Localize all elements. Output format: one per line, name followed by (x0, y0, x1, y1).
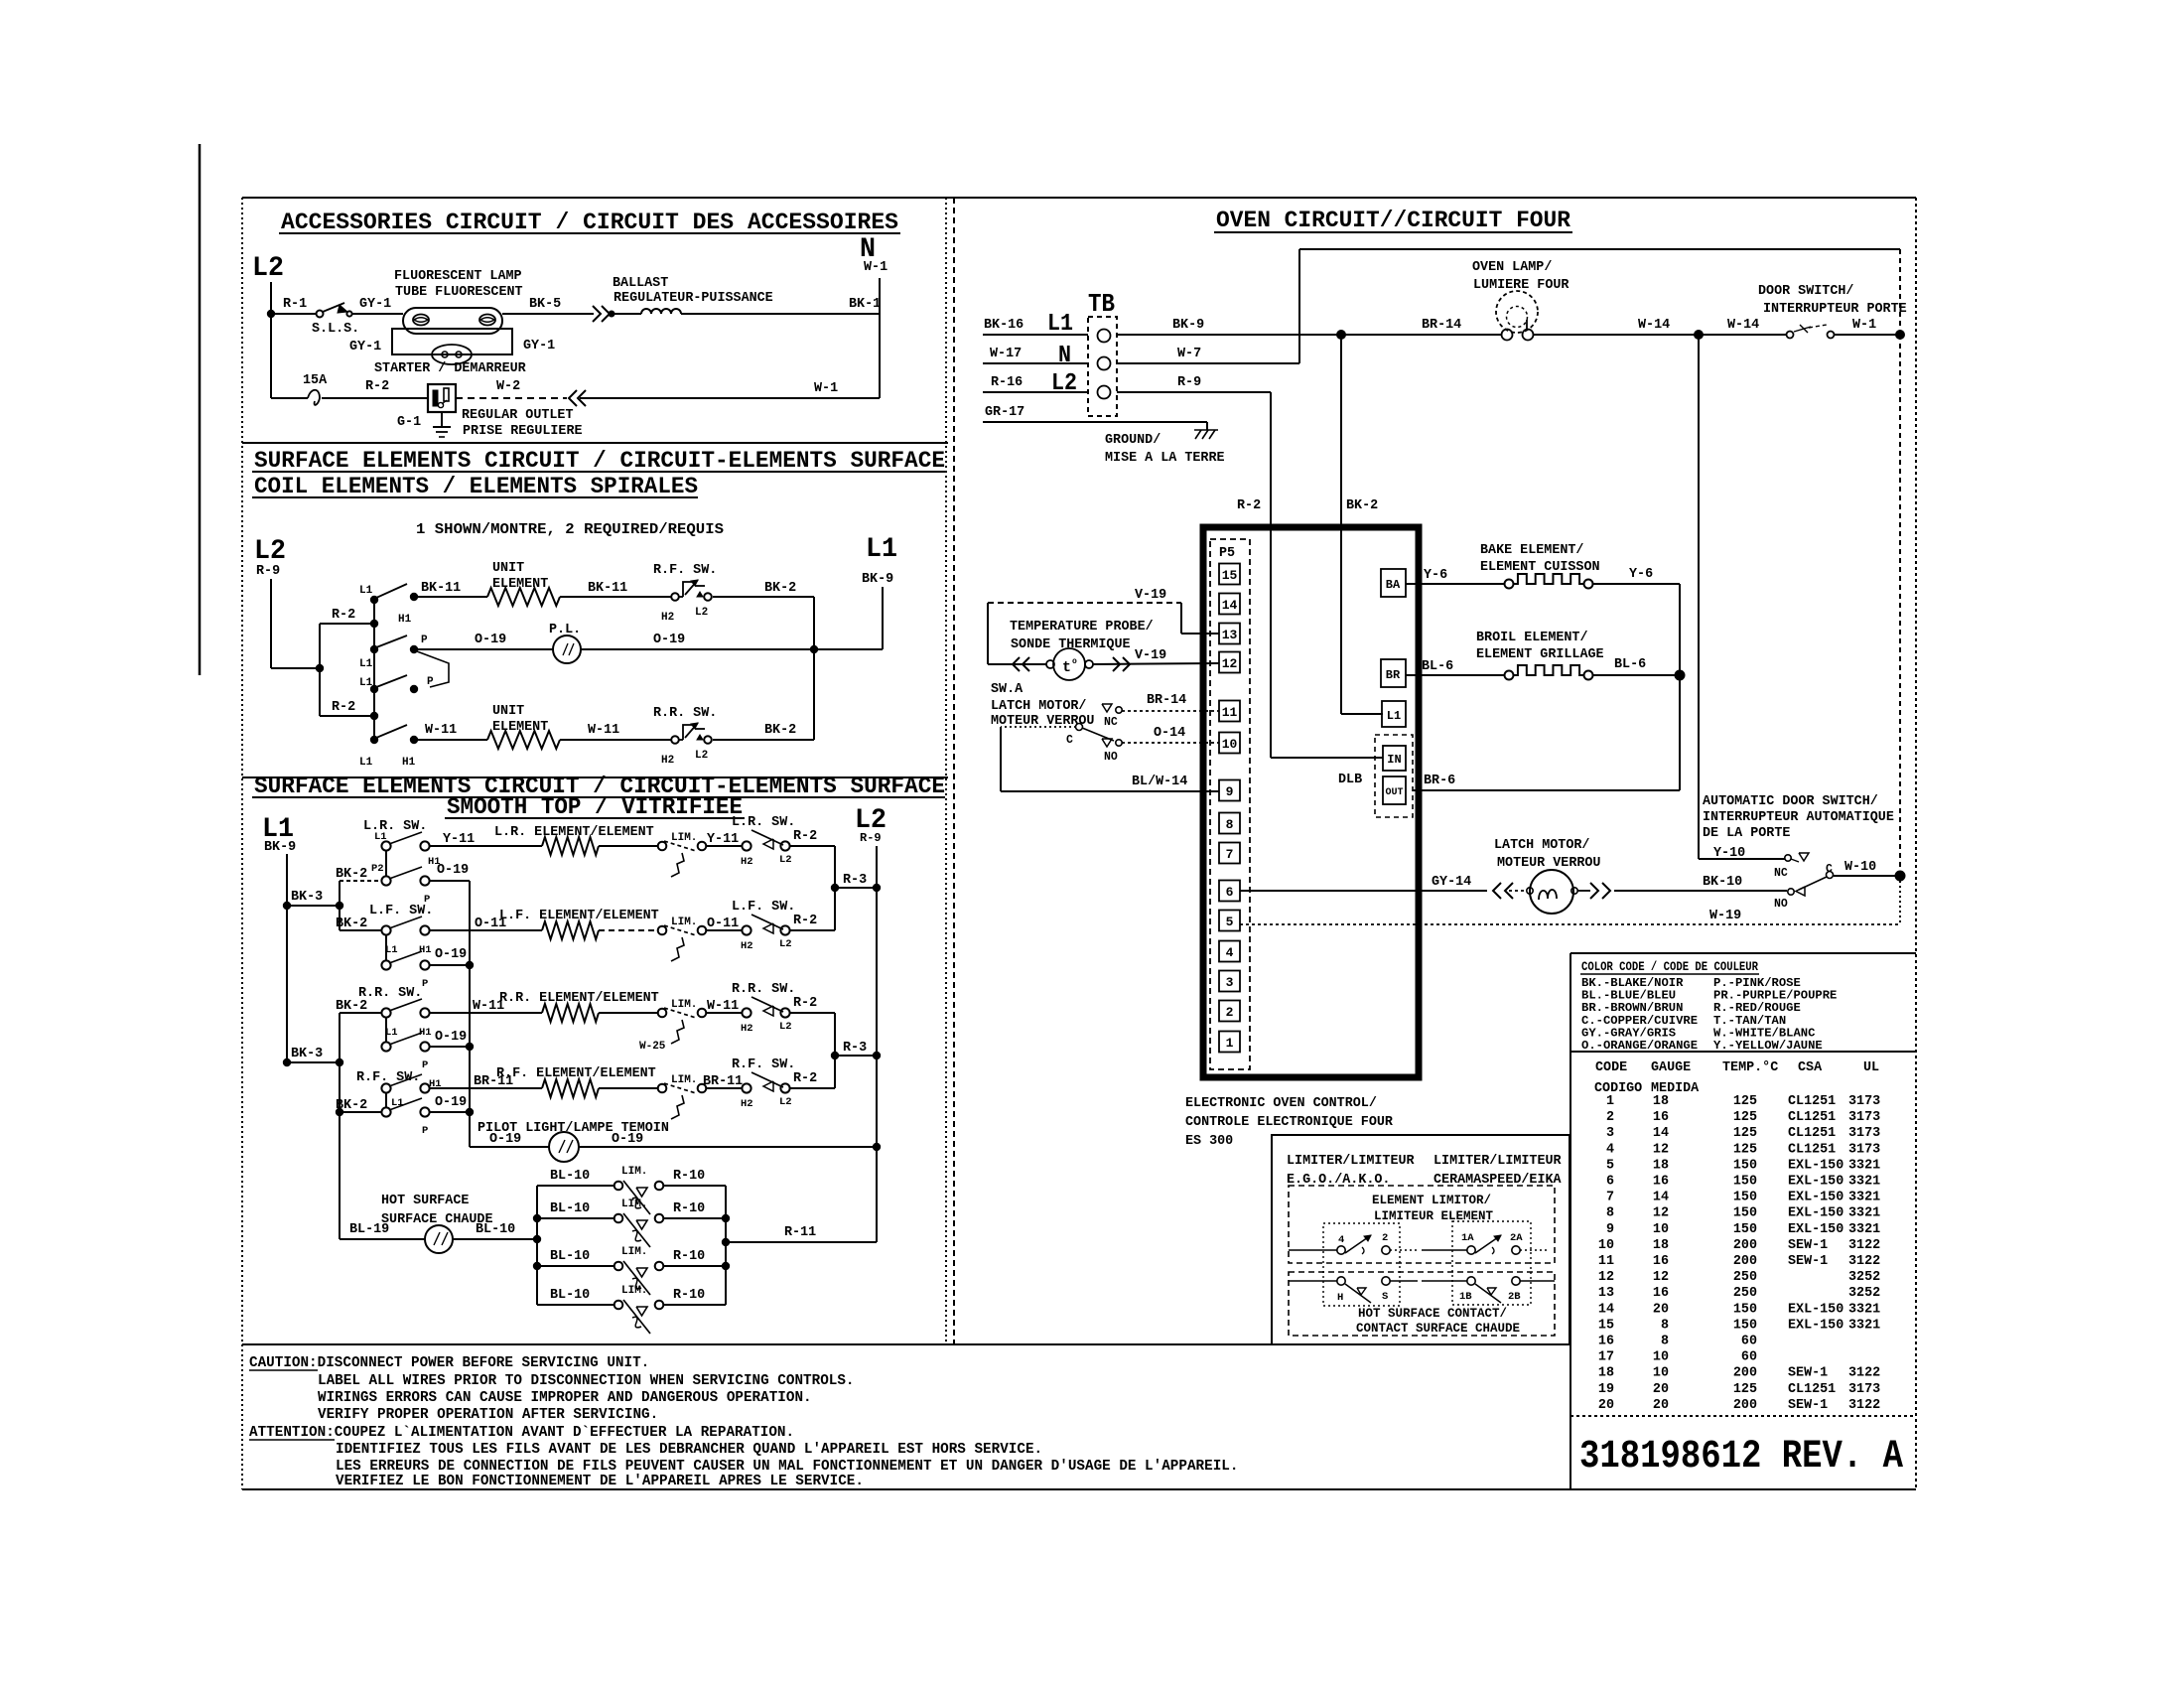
svg-text:R.R. SW.: R.R. SW. (358, 986, 422, 1001)
wire switch bus (coil) (373, 600, 375, 740)
svg-text:P: P (421, 635, 428, 646)
svg-text:W-2: W-2 (496, 379, 520, 394)
resistor L.F. element (542, 921, 599, 939)
node R-2 lower (370, 712, 378, 720)
svg-text:Y-11: Y-11 (707, 832, 739, 847)
svg-text:BL-10: BL-10 (550, 1169, 590, 1184)
wire bus segment A (smooth) (339, 881, 341, 930)
svg-text:200: 200 (1733, 1398, 1757, 1413)
svg-text:BK-5: BK-5 (529, 297, 561, 312)
svg-text:R-2: R-2 (365, 379, 389, 394)
wire bake/broil junction vertical (1679, 584, 1681, 790)
svg-text:H2: H2 (741, 1023, 753, 1035)
left boxes outer border left (dotted) (241, 198, 243, 1489)
connector chevrons W-2 (569, 390, 577, 406)
wire W-11 right (560, 739, 671, 741)
top border (242, 197, 1916, 199)
wire to limiter row2 (dashed) (599, 929, 658, 931)
svg-text:OVEN CIRCUIT//CIRCUIT FOUR: OVEN CIRCUIT//CIRCUIT FOUR (1216, 208, 1570, 233)
svg-text:12: 12 (1222, 656, 1238, 671)
svg-text:EXL-150: EXL-150 (1788, 1191, 1843, 1205)
node BK-3/bus junction lower (336, 1058, 343, 1066)
svg-text:BL-10: BL-10 (550, 1249, 590, 1264)
svg-text:LIMITEUR ELEMENT: LIMITEUR ELEMENT (1374, 1209, 1494, 1223)
svg-text:L2: L2 (779, 1096, 792, 1108)
svg-text:LIM.: LIM. (671, 999, 697, 1011)
svg-text:O-19: O-19 (475, 633, 506, 647)
wire BK-2 R.R. (340, 1012, 381, 1014)
switch SW.A NO contact (1102, 739, 1112, 747)
svg-text:14: 14 (1222, 598, 1238, 613)
probe connector chevrons left (1013, 657, 1020, 671)
svg-text:R-16: R-16 (991, 375, 1023, 390)
temperature probe sensor (1046, 660, 1054, 668)
svg-text:4: 4 (1226, 945, 1234, 960)
svg-text:H1: H1 (419, 1027, 432, 1039)
node O-19/BK-2 junction (810, 645, 818, 653)
svg-text:G-1: G-1 (397, 415, 421, 430)
svg-text:L1: L1 (1387, 709, 1401, 723)
limiter inner dotted box right (1452, 1221, 1531, 1305)
node BL-6 junction (1675, 670, 1686, 681)
svg-text:L2: L2 (779, 938, 792, 950)
svg-text:O-19: O-19 (489, 1132, 521, 1147)
regular outlet (starter box) (428, 384, 456, 412)
svg-text:REGULAR OUTLET: REGULAR OUTLET (462, 408, 574, 423)
wire BK-5 (502, 313, 594, 315)
svg-text:UNIT: UNIT (492, 561, 524, 576)
svg-text:L1: L1 (866, 534, 897, 565)
svg-text:R.R. SW.: R.R. SW. (653, 706, 717, 721)
table top border (1570, 952, 1916, 954)
switch S.L.S. (317, 311, 324, 318)
svg-text:R-11: R-11 (784, 1225, 816, 1240)
node BK-9 junction (1336, 330, 1346, 340)
svg-text:ATTENTION:COUPEZ L`ALIMENTATIO: ATTENTION:COUPEZ L`ALIMENTATION AVANT D`… (249, 1425, 794, 1441)
svg-text:W-1: W-1 (814, 381, 838, 396)
svg-text:BL-10: BL-10 (476, 1222, 515, 1237)
svg-text:TB: TB (1088, 289, 1115, 319)
svg-text:R-9: R-9 (860, 831, 882, 845)
svg-text:PRISE REGULIERE: PRISE REGULIERE (463, 424, 583, 439)
wire BK-11 left (414, 596, 487, 598)
inductor ballast (612, 313, 641, 315)
svg-text:3252: 3252 (1848, 1270, 1880, 1285)
svg-text:3321: 3321 (1848, 1206, 1880, 1221)
svg-text:125: 125 (1733, 1110, 1757, 1125)
wire W-10 drop (1899, 876, 1901, 924)
wire O-19 pilot left (470, 1146, 549, 1148)
electronic oven control box (1203, 527, 1419, 1077)
ground outlet (441, 412, 443, 427)
switch SW.A NC contact (1102, 704, 1112, 712)
svg-text:LATCH MOTOR/: LATCH MOTOR/ (991, 699, 1086, 714)
wire Y-6 left (1406, 583, 1505, 585)
svg-text:VERIFIEZ LE BON FONCTIONNEMENT: VERIFIEZ LE BON FONCTIONNEMENT DE L'APPA… (336, 1474, 864, 1489)
svg-text:GROUND/: GROUND/ (1105, 433, 1160, 448)
svg-text:UL: UL (1863, 1060, 1879, 1075)
svg-text:BK-11: BK-11 (588, 581, 627, 596)
wire Y-6 right (1592, 583, 1680, 585)
divider between left boxes and oven circuit box (dotted) (945, 198, 947, 1344)
svg-text:BAKE ELEMENT/: BAKE ELEMENT/ (1480, 543, 1583, 558)
wire ladder right rail (725, 1186, 727, 1305)
node ballast input (609, 311, 615, 318)
svg-text:ACCESSORIES CIRCUIT / CIRCUIT: ACCESSORIES CIRCUIT / CIRCUIT DES ACCESS… (281, 210, 898, 235)
svg-text:15: 15 (1222, 568, 1238, 583)
bottom border (242, 1488, 1916, 1490)
svg-text:3122: 3122 (1848, 1238, 1880, 1253)
svg-text:15: 15 (1598, 1318, 1614, 1333)
wire R-10 ladder row y=1227 (663, 1217, 726, 1219)
switch SW.A common (1076, 724, 1083, 731)
svg-text:BK-2: BK-2 (1346, 498, 1378, 513)
svg-text:IN: IN (1387, 753, 1401, 767)
svg-text:BR-14: BR-14 (1422, 318, 1461, 333)
wire R-3 lower (835, 1055, 877, 1057)
svg-text:W-7: W-7 (1177, 347, 1201, 361)
node pilot/L2 junction (873, 1143, 881, 1151)
wire BK-3 lower (287, 1061, 340, 1063)
wire BK-1 (681, 313, 880, 315)
svg-text:125: 125 (1733, 1094, 1757, 1109)
wire O-14 to pin10 (dashed) (1122, 742, 1219, 744)
svg-text:3173: 3173 (1848, 1110, 1880, 1125)
node ladder left row2 (533, 1214, 541, 1222)
terminal block TB (1088, 317, 1117, 416)
pin 15 (P5) (1219, 564, 1240, 585)
node O-19 trunk row4 (466, 1108, 474, 1116)
svg-text:P: P (427, 676, 434, 688)
svg-text:6: 6 (1606, 1175, 1614, 1190)
wire Y-11 right (706, 845, 743, 847)
pin 11 (P5) (1219, 701, 1240, 722)
limiter switch 1B-2B (1422, 1280, 1467, 1282)
svg-text:4: 4 (1338, 1234, 1344, 1246)
svg-text:3: 3 (1606, 1126, 1614, 1141)
svg-text:R-1: R-1 (283, 297, 307, 312)
svg-text:SMOOTH TOP / VITRIFIEE: SMOOTH TOP / VITRIFIEE (447, 794, 743, 820)
oven circuit box left border (dashed) (953, 198, 955, 1344)
wire R-9 (270, 579, 272, 668)
wire O-11 left (430, 929, 542, 931)
wire L2 vertical (270, 282, 272, 398)
svg-text:O-19: O-19 (435, 947, 467, 962)
wire BK-2 to L1 relay (1341, 713, 1383, 715)
wire R-2 row3 (789, 1012, 835, 1014)
svg-text:150: 150 (1733, 1158, 1757, 1173)
svg-text:125: 125 (1733, 1382, 1757, 1397)
svg-text:LIM.: LIM. (621, 1166, 647, 1178)
wire BR-14 to pin11 (dashed) (1122, 710, 1219, 712)
wire O-19 row4 (430, 1111, 470, 1113)
svg-text:LIM.: LIM. (671, 1074, 697, 1086)
connector chevrons (593, 306, 601, 322)
wire R-2/R-3 corner row3-4 (834, 1013, 836, 1088)
wire to limiter row4 (599, 1087, 658, 1089)
svg-text:W-1: W-1 (1852, 318, 1876, 333)
node BK-2 R.F. junction (336, 1108, 343, 1116)
svg-text:BK-1: BK-1 (849, 297, 881, 312)
svg-text:O-19: O-19 (437, 863, 469, 878)
svg-text:R-3: R-3 (843, 873, 867, 888)
svg-text:L2: L2 (254, 536, 286, 567)
svg-text:BK-3: BK-3 (291, 890, 323, 905)
pin 10 (P5) (1219, 733, 1240, 754)
svg-text:14: 14 (1653, 1191, 1669, 1205)
svg-text:4: 4 (1606, 1142, 1614, 1157)
resistor L.R. element (542, 837, 599, 855)
svg-text:H1: H1 (419, 944, 432, 956)
svg-text:DOOR SWITCH/: DOOR SWITCH/ (1758, 284, 1853, 299)
wire N vertical (879, 278, 881, 398)
wire BK-2 upper (coil) (713, 596, 814, 598)
svg-text:H1: H1 (402, 757, 416, 769)
svg-text:200: 200 (1733, 1254, 1757, 1269)
svg-text:5: 5 (1226, 915, 1234, 929)
svg-text:t: t (1062, 659, 1071, 676)
svg-text:R-9: R-9 (256, 564, 280, 579)
svg-text:R-10: R-10 (673, 1201, 705, 1216)
svg-text:ELECTRONIC OVEN CONTROL/: ELECTRONIC OVEN CONTROL/ (1185, 1096, 1377, 1111)
svg-text:L1: L1 (359, 658, 373, 670)
svg-text:8: 8 (1606, 1206, 1614, 1221)
door switch (1787, 332, 1794, 339)
pin 7 (P5) (1219, 843, 1240, 864)
relay OUT box (1383, 776, 1406, 804)
hot surface contact dashed box (1289, 1272, 1555, 1336)
svg-text:LIMITER/LIMITEUR: LIMITER/LIMITEUR (1433, 1154, 1563, 1169)
svg-text:LIM.: LIM. (621, 1285, 647, 1297)
svg-text:EXL-150: EXL-150 (1788, 1222, 1843, 1237)
wire BL/W-14 to pin9 (1001, 790, 1219, 792)
svg-text:1B: 1B (1459, 1291, 1472, 1303)
svg-text:L2: L2 (779, 854, 792, 866)
svg-text:20: 20 (1653, 1302, 1669, 1317)
svg-text:10: 10 (1653, 1222, 1669, 1237)
relay L1 box (1382, 701, 1406, 727)
svg-text:L.F. SW.: L.F. SW. (732, 900, 795, 915)
wire V-19 riser to pin13 (1180, 603, 1182, 634)
svg-text:H1: H1 (398, 614, 412, 626)
svg-text:L2: L2 (695, 607, 708, 619)
svg-text:BA: BA (1386, 578, 1401, 592)
svg-text:GY-14: GY-14 (1432, 875, 1471, 890)
wire O-19 pilot right (579, 1146, 877, 1148)
svg-text:NC: NC (1104, 716, 1118, 729)
svg-text:3321: 3321 (1848, 1175, 1880, 1190)
wire R-11 (726, 1241, 877, 1243)
wire R-10 ladder row y=1194 (663, 1185, 726, 1187)
svg-text:BK-2: BK-2 (336, 999, 367, 1014)
node BK-3 lower left (283, 1058, 291, 1066)
svg-text:19: 19 (1598, 1382, 1614, 1397)
svg-text:R-2: R-2 (1237, 498, 1261, 513)
svg-text:8: 8 (1661, 1318, 1669, 1333)
node W-14 junction (1694, 330, 1704, 340)
wire GY-14 from pin6 (1240, 890, 1487, 892)
switch unit-element lower L1/H1 (370, 736, 378, 744)
svg-text:IDENTIFIEZ TOUS LES FILS AVANT: IDENTIFIEZ TOUS LES FILS AVANT DE LES DE… (336, 1442, 1042, 1458)
svg-text:P: P (422, 1059, 428, 1071)
wire BR-11 right (706, 1087, 743, 1089)
svg-text:2A: 2A (1510, 1232, 1523, 1244)
wire to limiter row1 (599, 845, 658, 847)
limiter box (1272, 1135, 1570, 1344)
svg-text:9: 9 (1226, 784, 1234, 799)
wire O-11 right (706, 929, 743, 931)
svg-text:15A: 15A (303, 373, 328, 388)
table header separator (1570, 1051, 1916, 1053)
node BL-10 trunk (533, 1235, 541, 1243)
svg-text:12: 12 (1653, 1270, 1669, 1285)
node O-19 trunk row2 (466, 961, 474, 969)
svg-text:BK-2: BK-2 (336, 867, 367, 882)
svg-text:8: 8 (1661, 1335, 1669, 1349)
wire BL-6 right (1592, 674, 1680, 676)
wire W-14 to door switch (1699, 334, 1787, 336)
node BK-3/bus junction upper (336, 902, 343, 910)
svg-text:BR-11: BR-11 (703, 1074, 743, 1089)
wire V-19 to pin12 (1093, 663, 1219, 664)
svg-text:20: 20 (1653, 1398, 1669, 1413)
pin 12 (P5) (1219, 652, 1240, 673)
svg-text:O-14: O-14 (1154, 726, 1185, 741)
svg-text:W-17: W-17 (990, 347, 1022, 361)
pin 6 (P5) (1219, 881, 1240, 902)
wire BL-6 left (1406, 674, 1505, 676)
node R-3/R-9 junction lower (873, 1052, 881, 1059)
wire BK-3 upper (287, 905, 340, 907)
svg-text:L1: L1 (359, 585, 373, 597)
svg-text:3122: 3122 (1848, 1398, 1880, 1413)
wire BR-6 (1413, 789, 1680, 791)
svg-text:BL-6: BL-6 (1422, 659, 1453, 674)
svg-text:LIM.: LIM. (671, 917, 697, 928)
svg-text:BK-3: BK-3 (291, 1047, 323, 1061)
svg-text:BK-2: BK-2 (764, 581, 796, 596)
svg-text:11: 11 (1222, 705, 1238, 720)
svg-text:LATCH MOTOR/: LATCH MOTOR/ (1494, 838, 1589, 853)
wire W-1 bottom (580, 397, 880, 399)
svg-text:O-19: O-19 (653, 633, 685, 647)
svg-text:L1: L1 (374, 831, 387, 843)
svg-text:CL1251: CL1251 (1788, 1126, 1836, 1141)
svg-text:W-11: W-11 (425, 723, 457, 738)
wire probe left leg (987, 603, 989, 664)
svg-text:R-2: R-2 (332, 608, 355, 623)
wire BL-10 feed (453, 1238, 537, 1240)
svg-text:SURFACE ELEMENTS CIRCUIT / CIR: SURFACE ELEMENTS CIRCUIT / CIRCUIT-ELEME… (254, 448, 945, 474)
svg-text:CONTROLE ELECTRONIQUE FOUR: CONTROLE ELECTRONIQUE FOUR (1185, 1115, 1394, 1130)
heater bake element (1505, 580, 1514, 589)
svg-text:13: 13 (1598, 1286, 1614, 1301)
svg-text:2: 2 (1606, 1110, 1614, 1125)
svg-text:V-19: V-19 (1135, 648, 1166, 663)
auto door switch NO (1796, 887, 1805, 896)
svg-text:150: 150 (1733, 1318, 1757, 1333)
svg-text:Y-6: Y-6 (1629, 567, 1653, 582)
svg-text:W-14: W-14 (1638, 318, 1670, 333)
probe connector chevrons right (1113, 657, 1120, 671)
pin 5 (P5) (1219, 911, 1240, 931)
revision box separator (dashed) (1570, 1415, 1916, 1417)
svg-text:BK-9: BK-9 (1172, 318, 1204, 333)
svg-text:V-19: V-19 (1135, 588, 1166, 603)
svg-text:BK-9: BK-9 (862, 572, 893, 587)
svg-text:SONDE THERMIQUE: SONDE THERMIQUE (1011, 637, 1131, 652)
node R-3 upper (831, 884, 839, 892)
wire W-10 (1834, 875, 1900, 877)
auto door switch NC (1785, 855, 1791, 861)
svg-text:H2: H2 (741, 940, 753, 952)
svg-text:H2: H2 (661, 755, 674, 767)
svg-text:CL1251: CL1251 (1788, 1142, 1836, 1157)
svg-text:TEMPERATURE PROBE/: TEMPERATURE PROBE/ (1010, 620, 1154, 635)
svg-text:W-1: W-1 (864, 260, 887, 275)
svg-text:SEW-1: SEW-1 (1788, 1254, 1828, 1269)
svg-text:L.R. ELEMENT/ELEMENT: L.R. ELEMENT/ELEMENT (494, 825, 654, 840)
svg-text:NC: NC (1774, 867, 1788, 880)
wire bus segment B (smooth) (339, 1013, 341, 1239)
element limitor dashed box (1289, 1186, 1555, 1263)
svg-text:CONTACT SURFACE CHAUDE: CONTACT SURFACE CHAUDE (1356, 1322, 1520, 1336)
svg-text:10: 10 (1598, 1238, 1614, 1253)
node ladder right row3 (722, 1262, 730, 1270)
wire BK-2 L.F. (340, 929, 381, 931)
svg-text:18: 18 (1598, 1366, 1614, 1381)
svg-text:16: 16 (1653, 1254, 1669, 1269)
pin 14 (P5) (1219, 594, 1240, 615)
svg-text:DLB: DLB (1338, 773, 1362, 787)
svg-text:R-2: R-2 (793, 829, 817, 844)
svg-text:2B: 2B (1508, 1291, 1521, 1303)
svg-text:12: 12 (1653, 1142, 1669, 1157)
svg-text:OUT: OUT (1385, 787, 1403, 798)
wire GY-14 stub (dashed) (1509, 890, 1527, 892)
wire W-11 left (smooth) (430, 1012, 542, 1014)
svg-text:R-2: R-2 (793, 914, 817, 928)
hot surface indicator (425, 1225, 453, 1253)
oven circuit box right border (dashed) (1915, 198, 1917, 1489)
wire ladder left rail (536, 1186, 538, 1305)
ground (mise a la terre) (1206, 422, 1208, 430)
svg-text:COLOR CODE / CODE DE COULEUR: COLOR CODE / CODE DE COULEUR (1581, 959, 1758, 974)
wire BK-2 drop into EOC (1340, 335, 1342, 714)
svg-text:HOT SURFACE: HOT SURFACE (381, 1194, 469, 1208)
node W-1 junction (1895, 330, 1905, 340)
wire BK-2 L.R. (dashed) (340, 880, 381, 882)
wire BK-2 vertical (coil) (813, 597, 815, 740)
wire R-9 (oven) (1117, 391, 1271, 393)
oven lamp (1496, 291, 1538, 333)
svg-text:3173: 3173 (1848, 1382, 1880, 1397)
resistor R.R. element (542, 1004, 599, 1022)
node BK-3 upper (283, 902, 291, 910)
svg-text:LIM.: LIM. (621, 1246, 647, 1258)
limiter inner dotted box left (1323, 1223, 1400, 1306)
svg-text:MOTEUR VERROU: MOTEUR VERROU (1497, 856, 1600, 871)
svg-text:ELEMENT GRILLAGE: ELEMENT GRILLAGE (1476, 647, 1604, 662)
svg-text:LIM.: LIM. (621, 1199, 647, 1210)
svg-text:BR-14: BR-14 (1147, 693, 1186, 708)
wire W-14 (lamp to node) (1534, 334, 1699, 336)
svg-text:ELEMENT: ELEMENT (492, 577, 548, 592)
svg-text:1: 1 (1226, 1036, 1234, 1051)
svg-text:EXL-150: EXL-150 (1788, 1302, 1843, 1317)
relay BR box (1381, 659, 1406, 687)
svg-text:L.R. SW.: L.R. SW. (732, 815, 795, 830)
